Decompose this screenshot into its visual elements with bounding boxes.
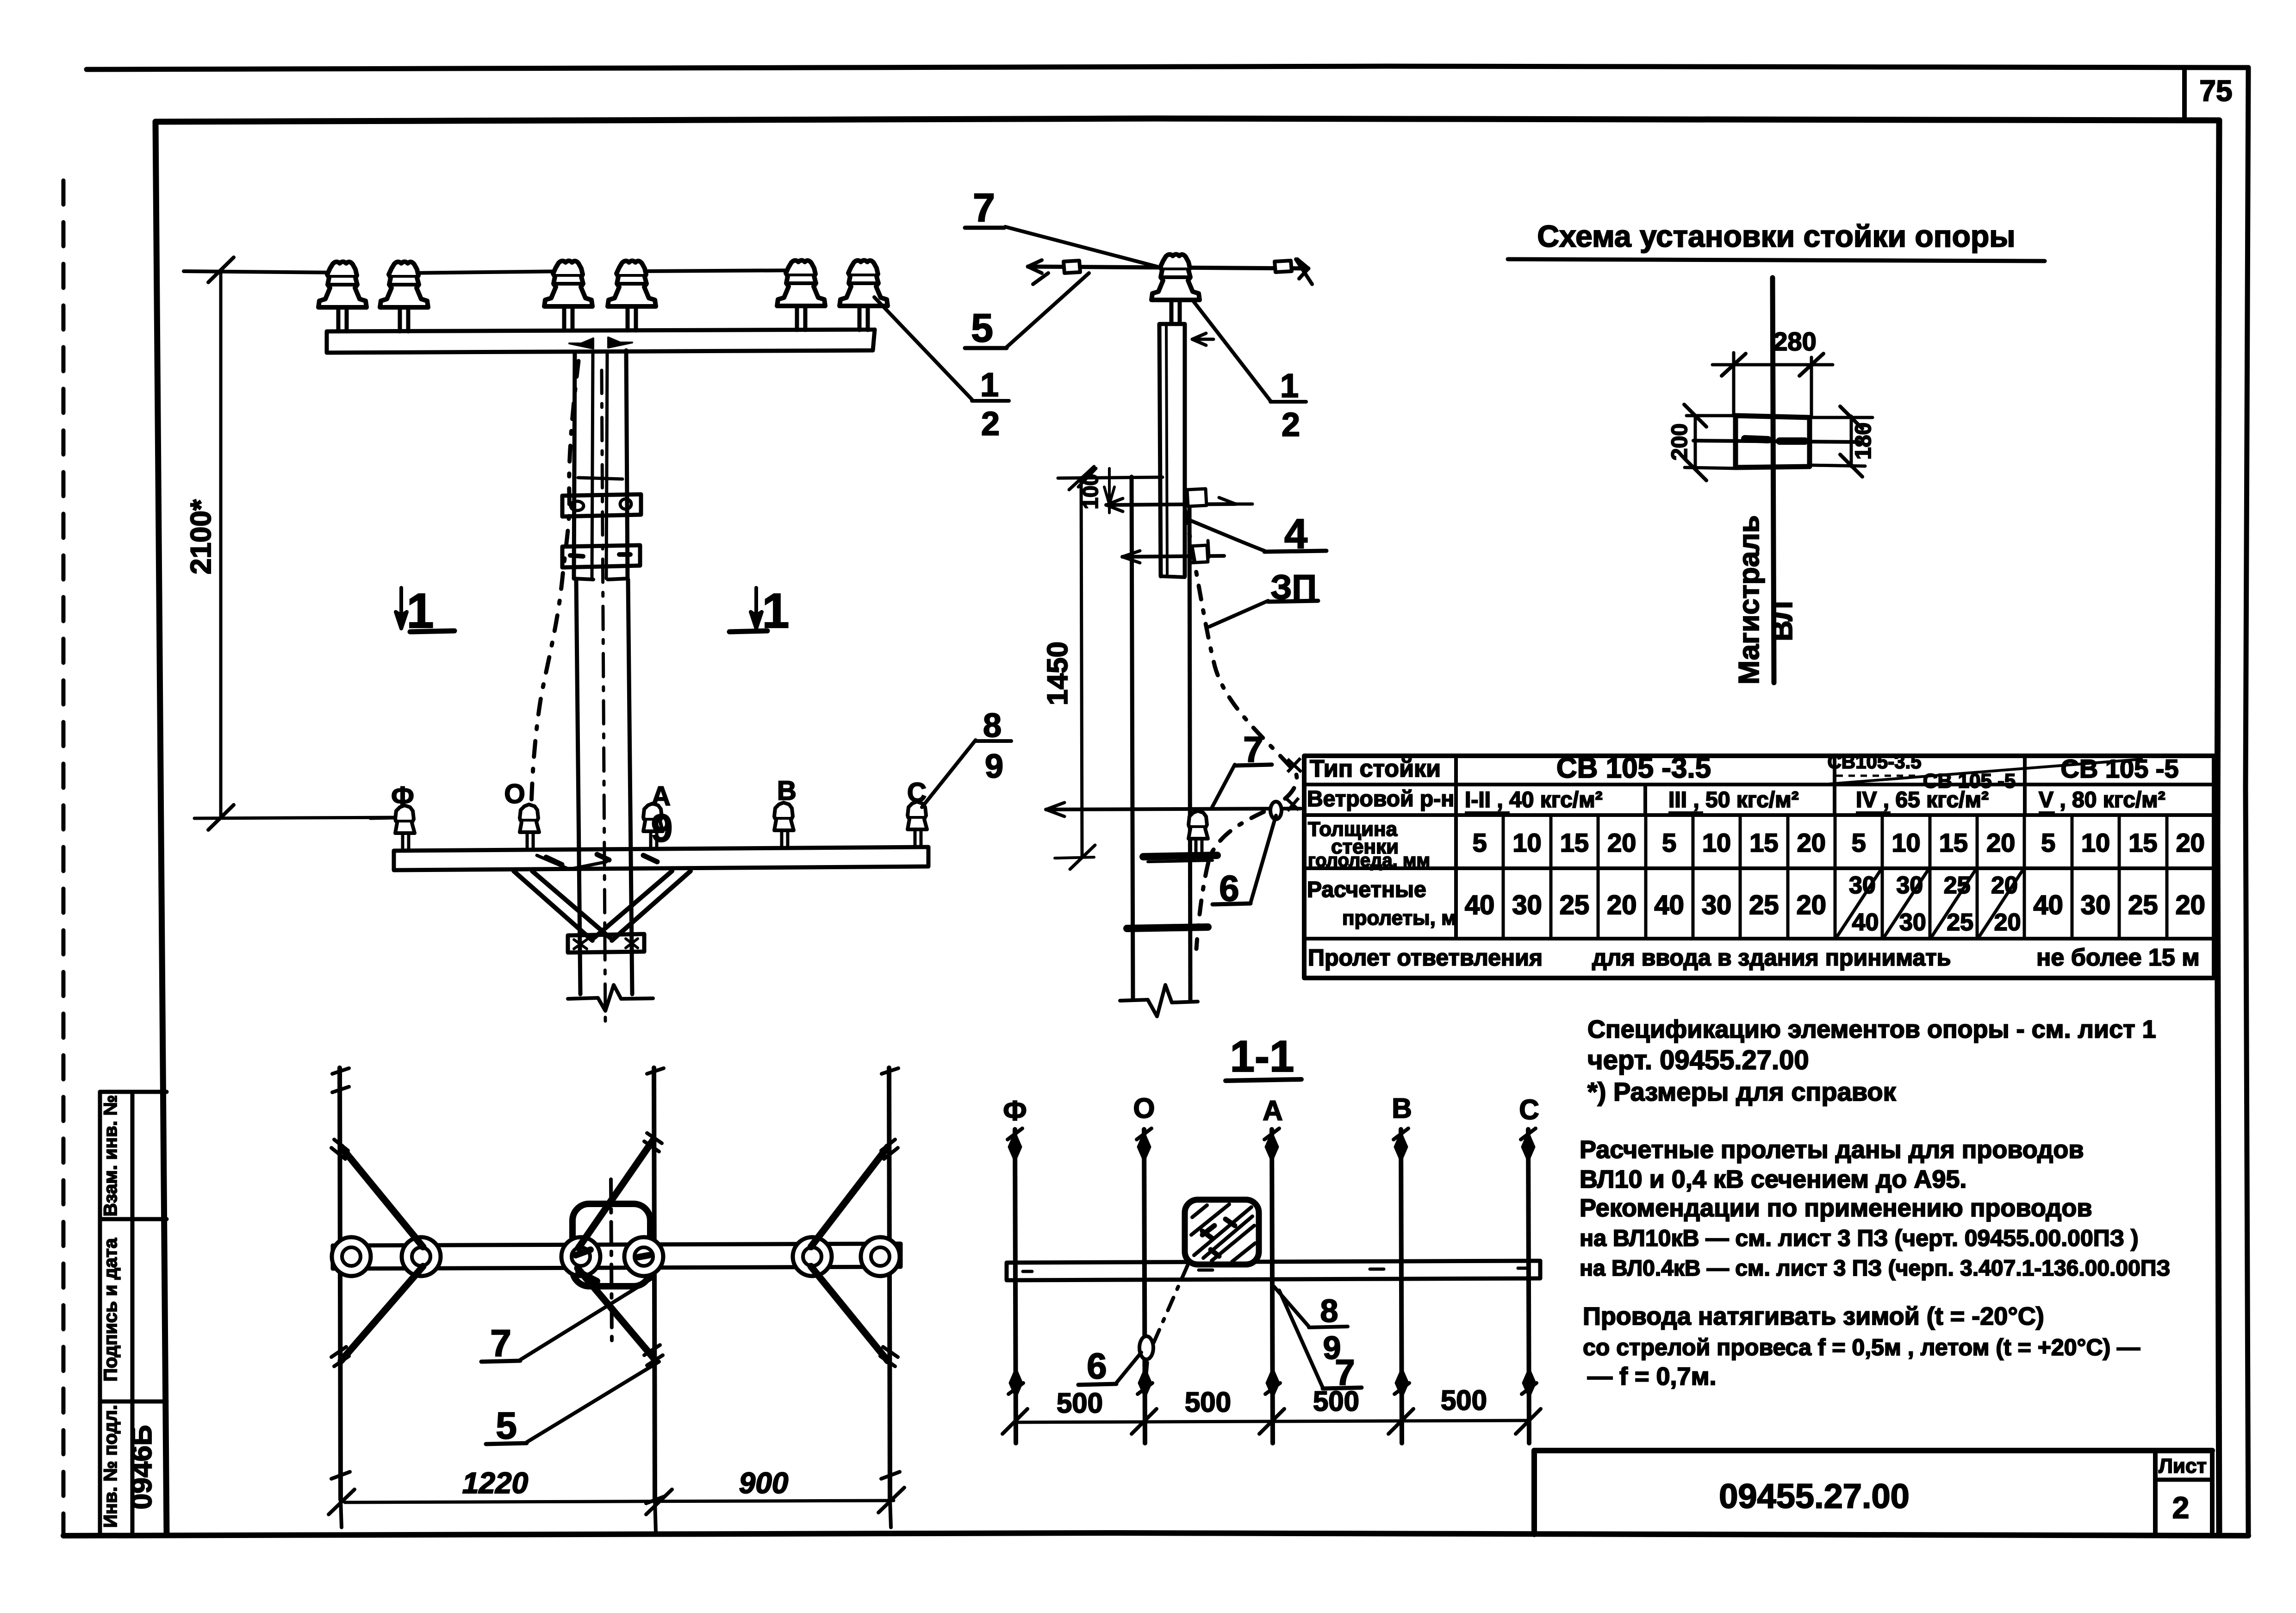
bands (clamps) <box>562 494 641 517</box>
svg-text:на ВЛ0.4кВ — см. лист 3 ПЗ: на ВЛ0.4кВ — см. лист 3 ПЗ (черп. 3.407.… <box>1580 1256 2170 1281</box>
lower crossarm <box>394 847 928 870</box>
callout 8/9 <box>1309 1327 1348 1327</box>
svg-text:75: 75 <box>2199 74 2232 107</box>
svg-text:С: С <box>1519 1094 1539 1125</box>
svg-text:Спецификацию элементов опоры: Спецификацию элементов опоры - см. лист … <box>1587 1015 2156 1043</box>
svg-text:15: 15 <box>1749 828 1778 857</box>
svg-text:7: 7 <box>973 186 995 230</box>
X braces right <box>811 1147 888 1361</box>
svg-text:Провода натягивать зимой (t: Провода натягивать зимой (t = -20°C) <box>1583 1302 2044 1330</box>
pole lower <box>576 579 632 994</box>
grounding conductor dashed curve (front) <box>531 361 579 808</box>
svg-text:5: 5 <box>971 306 993 350</box>
page number box 75 <box>2182 68 2187 119</box>
svg-text:А: А <box>1263 1095 1282 1126</box>
left wire stub at lower crossarm <box>370 818 394 818</box>
svg-text:СВ 105 -5: СВ 105 -5 <box>2060 754 2178 783</box>
svg-text:I-II , 40 кгс/м²: I-II , 40 кгс/м² <box>1465 788 1603 812</box>
svg-text:гололеда, мм: гололеда, мм <box>1308 850 1430 871</box>
top wire <box>404 270 801 273</box>
svg-text:1: 1 <box>407 584 434 638</box>
svg-text:для ввода в здания принимать: для ввода в здания принимать <box>1592 945 1951 971</box>
svg-text:6: 6 <box>1219 868 1239 909</box>
svg-text:30: 30 <box>1899 909 1926 936</box>
sheet outer right border <box>2246 68 2248 1536</box>
svg-text:5: 5 <box>1852 828 1866 857</box>
svg-text:Расчетные пролеты даны дл: Расчетные пролеты даны для проводов <box>1580 1136 2084 1164</box>
dim 280 <box>1734 353 1811 417</box>
svg-text:6: 6 <box>1087 1345 1107 1386</box>
stamp column boxes <box>98 1092 102 1534</box>
svg-text:20: 20 <box>2176 828 2205 857</box>
dash-dot from square to wire O <box>1146 1265 1188 1377</box>
svg-text:40: 40 <box>1852 909 1879 936</box>
svg-text:0946Б: 0946Б <box>126 1425 158 1510</box>
svg-text:В: В <box>777 776 796 806</box>
crossarm (plan) double line <box>333 1244 901 1269</box>
dim 200 left <box>1694 415 1697 469</box>
wire end ticks <box>332 1068 898 1092</box>
svg-text:200: 200 <box>1668 423 1692 461</box>
svg-text:Схема установки стойки опор: Схема установки стойки опоры <box>1537 219 2015 253</box>
svg-text:1: 1 <box>762 584 790 638</box>
svg-text:Взам. инв. №: Взам. инв. № <box>100 1095 121 1216</box>
small insulators on lower crossarm <box>395 805 415 850</box>
svg-text:5: 5 <box>1473 828 1487 857</box>
svg-text:О: О <box>504 779 525 809</box>
svg-text:2100*: 2100* <box>185 499 217 574</box>
svg-text:20: 20 <box>1607 828 1636 857</box>
svg-text:500: 500 <box>1313 1386 1359 1417</box>
svg-text:— f = 0,7м.: — f = 0,7м. <box>1587 1363 1717 1390</box>
table outer <box>1304 756 2214 978</box>
X braces left <box>341 1147 423 1361</box>
three wires (plan) <box>340 1068 890 1500</box>
five wires <box>1015 1129 1016 1443</box>
svg-text:О: О <box>1133 1093 1155 1124</box>
svg-text:20: 20 <box>1797 890 1827 920</box>
callout 5 <box>965 346 1007 350</box>
horizontal axis line <box>1693 441 1860 442</box>
left wire end bird <box>1028 260 1048 284</box>
svg-text:8: 8 <box>983 707 1002 744</box>
sheet outer top border <box>87 66 2248 69</box>
svg-text:III , 50 кгс/м²: III , 50 кгс/м² <box>1668 788 1799 812</box>
svg-text:10: 10 <box>1512 828 1541 857</box>
svg-text:Ф: Ф <box>391 781 414 811</box>
svg-text:4: 4 <box>1284 511 1307 557</box>
svg-text:Расчетные: Расчетные <box>1307 878 1426 902</box>
callout 5 (plan) <box>486 1443 527 1444</box>
svg-text:со стрелой провеса f = 0,5м: со стрелой провеса f = 0,5м , летом (t =… <box>1583 1334 2140 1360</box>
svg-text:25: 25 <box>1749 890 1779 920</box>
svg-text:10: 10 <box>1892 828 1920 857</box>
main frame right line <box>2217 120 2219 1534</box>
lower wire level arrow line <box>1046 809 1300 810</box>
svg-text:1-1: 1-1 <box>1230 1032 1294 1081</box>
svg-text:10: 10 <box>1702 828 1731 857</box>
svg-text:9: 9 <box>651 806 673 850</box>
grounding conductor curve (side) <box>1185 509 1297 949</box>
brace base plate <box>568 934 644 953</box>
dim 180 right <box>1850 416 1853 467</box>
small insulator on side crossarm <box>1188 811 1208 855</box>
section mark 1 (left) <box>396 588 407 629</box>
svg-text:7: 7 <box>1243 729 1263 770</box>
stand bottom break <box>1120 985 1198 1016</box>
svg-text:40: 40 <box>1465 890 1495 920</box>
callout 7 (top) <box>965 226 1004 230</box>
right wire end bird <box>1275 261 1292 272</box>
svg-text:30: 30 <box>2081 890 2111 920</box>
svg-text:180: 180 <box>1851 423 1876 460</box>
wood/concrete joint step <box>574 579 628 579</box>
callout 9 leader <box>537 855 606 869</box>
main frame left line <box>156 122 167 1534</box>
svg-text:2: 2 <box>981 405 1000 442</box>
tie oval on lower wire (side) <box>1270 802 1282 819</box>
svg-text:не более 15 м: не более 15 м <box>2036 944 2200 971</box>
svg-text:СВ105-3.5: СВ105-3.5 <box>1827 751 1921 772</box>
bird ticks at brace ends <box>331 1140 349 1366</box>
crossarm (section) <box>1007 1261 1540 1280</box>
X braces middle <box>578 1140 653 1358</box>
section title 1-1 <box>1226 1079 1301 1081</box>
callout 7 (plan) <box>481 1361 520 1362</box>
crossarm bolt line 2 <box>1122 556 1224 557</box>
callout 1/2 right <box>1270 400 1306 404</box>
main stand edges <box>1132 477 1133 1000</box>
svg-text:Ф: Ф <box>1003 1095 1027 1126</box>
callout 6 <box>1078 1384 1116 1385</box>
svg-text:2: 2 <box>1282 406 1300 443</box>
svg-text:Магистраль: Магистраль <box>1733 515 1765 685</box>
svg-text:25: 25 <box>1947 909 1973 936</box>
junction blobs <box>576 1250 649 1281</box>
svg-text:1450: 1450 <box>1042 641 1074 705</box>
svg-text:Пролет ответвления: Пролет ответвления <box>1308 945 1543 971</box>
svg-text:1: 1 <box>1280 367 1299 405</box>
lower crossarm (side) thick bars <box>1143 855 1217 857</box>
side view wire <box>1028 267 1308 268</box>
svg-text:на ВЛ10кВ — см. лист 3 ПЗ: на ВЛ10кВ — см. лист 3 ПЗ (черт. 09455.0… <box>1580 1225 2139 1251</box>
V-brace struts <box>514 871 610 940</box>
svg-text:1220: 1220 <box>462 1466 528 1500</box>
svg-text:ВЛ: ВЛ <box>1767 601 1798 641</box>
pole top section (narrow) <box>1159 324 1185 576</box>
svg-text:Тип стойки: Тип стойки <box>1310 755 1441 782</box>
svg-text:7: 7 <box>490 1322 511 1364</box>
crossarm bolt line 1 <box>1106 504 1236 505</box>
top insulator (side) <box>1151 255 1200 324</box>
dim 2100 line <box>219 270 223 817</box>
svg-text:Рекомендации по применению п: Рекомендации по применению проводов <box>1580 1194 2092 1222</box>
svg-text:ВЛ10 и 0,4 кВ сечением до: ВЛ10 и 0,4 кВ сечением до А95. <box>1580 1165 1966 1193</box>
centerline Магистраль ВЛ <box>1773 278 1774 683</box>
callout 4 <box>1264 551 1326 552</box>
svg-text:20: 20 <box>1994 909 2021 936</box>
insulator circles (plan) <box>332 1237 371 1276</box>
callout 6 (side) <box>1213 903 1251 904</box>
svg-text:V , 80 кгс/м²: V , 80 кгс/м² <box>2039 788 2165 812</box>
svg-text:2: 2 <box>2172 1490 2190 1525</box>
junction marks on crossarm <box>546 854 657 865</box>
callout 1/2 (left view) <box>972 399 1009 403</box>
svg-text:500: 500 <box>1185 1387 1231 1418</box>
svg-text:5: 5 <box>496 1405 517 1447</box>
svg-text:20: 20 <box>1797 828 1826 857</box>
section mark 1 (right) <box>751 588 762 629</box>
svg-text:5: 5 <box>1662 828 1676 857</box>
svg-text:900: 900 <box>739 1466 789 1500</box>
dim 1450 <box>1081 478 1082 857</box>
main frame top line <box>156 118 2219 122</box>
svg-text:Подпись и дата: Подпись и дата <box>100 1238 121 1382</box>
svg-text:280: 280 <box>1773 327 1816 356</box>
svg-text:25: 25 <box>1560 890 1590 920</box>
callout 7 <box>1323 1388 1362 1389</box>
6 insulators on top crossarm <box>318 262 367 332</box>
svg-text:15: 15 <box>2128 828 2157 857</box>
svg-text:15: 15 <box>1939 828 1968 857</box>
sheet bottom border <box>63 1533 2248 1536</box>
svg-text:20: 20 <box>1607 890 1637 920</box>
pole break at bottom <box>568 985 653 1011</box>
svg-text:IV , 65 кгс/м²: IV , 65 кгс/м² <box>1856 788 1989 812</box>
dim line 500 x4 <box>1015 1420 1528 1422</box>
title block <box>1534 1448 2212 1453</box>
svg-text:40: 40 <box>1654 890 1684 920</box>
dim 100 <box>1108 468 1111 513</box>
svg-text:9: 9 <box>985 748 1003 785</box>
svg-text:20: 20 <box>2176 890 2206 920</box>
svg-text:ЗП: ЗП <box>1270 568 1317 606</box>
schema title underline <box>1508 259 2045 261</box>
svg-text:5: 5 <box>2041 828 2055 857</box>
svg-text:10: 10 <box>2081 828 2110 857</box>
svg-text:40: 40 <box>2033 890 2063 920</box>
callout 8/9 <box>976 739 1011 743</box>
top crossarm <box>327 330 875 353</box>
svg-text:8: 8 <box>1320 1293 1338 1329</box>
svg-text:25: 25 <box>2128 890 2158 920</box>
svg-text:пролеты, м: пролеты, м <box>1342 907 1456 929</box>
svg-text:100: 100 <box>1078 474 1102 510</box>
tie oval on wire O <box>1139 1336 1153 1359</box>
svg-text:500: 500 <box>1057 1388 1103 1419</box>
pole cross-section rounded square <box>572 1204 650 1286</box>
svg-text:Лист: Лист <box>2159 1455 2207 1477</box>
svg-text:В: В <box>1392 1093 1412 1124</box>
svg-text:09455.27.00: 09455.27.00 <box>1719 1477 1910 1515</box>
pole upper (4 lines) <box>574 350 628 579</box>
svg-text:500: 500 <box>1441 1385 1487 1416</box>
svg-text:черт. 09455.27.00: черт. 09455.27.00 <box>1587 1045 1809 1075</box>
svg-text:15: 15 <box>1560 828 1589 857</box>
callout 7 (side) <box>1235 765 1272 766</box>
callout ЗП <box>1268 601 1318 602</box>
svg-text:С: С <box>907 778 927 808</box>
sheet left dashed border <box>62 181 66 1536</box>
svg-text:20: 20 <box>1986 828 2015 857</box>
svg-text:Инв. № подл.: Инв. № подл. <box>100 1405 121 1527</box>
crossarm top line (side) <box>1058 477 1163 478</box>
svg-text:30: 30 <box>1512 890 1542 920</box>
stand cross-section rect <box>1736 416 1810 467</box>
crossarm center arrows <box>569 338 593 349</box>
dim line 1220/900 <box>345 1501 894 1502</box>
svg-text:1: 1 <box>980 367 999 404</box>
svg-text:СВ 105 -3.5: СВ 105 -3.5 <box>1556 752 1711 784</box>
svg-text:30: 30 <box>1702 890 1732 920</box>
svg-text:*) Размеры для справок: *) Размеры для справок <box>1587 1077 1897 1106</box>
svg-text:Ветровой р-н: Ветровой р-н <box>1307 787 1454 811</box>
hatched pole square <box>1185 1200 1259 1264</box>
